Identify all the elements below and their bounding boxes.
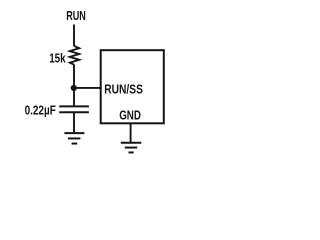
ground (capacitor side) <box>64 133 84 143</box>
ground (IC side) <box>121 143 142 153</box>
svg-text:RUN: RUN <box>66 8 86 23</box>
capacitor C1 bottom plate <box>59 111 89 113</box>
wire capacitor to ground <box>73 112 75 133</box>
resistor R1 15k zigzag <box>70 46 79 65</box>
capacitor C1 top plate <box>59 105 89 107</box>
svg-text:15k: 15k <box>49 51 66 66</box>
wire junction to capacitor <box>73 88 75 106</box>
wire GND pin to ground <box>130 123 132 142</box>
svg-text:GND: GND <box>119 107 141 122</box>
wire from RUN to resistor <box>73 25 75 47</box>
IC U1 box <box>101 50 164 123</box>
svg-text:RUN/SS: RUN/SS <box>104 81 143 96</box>
wire junction to RUN/SS pin <box>74 87 102 89</box>
junction node dot <box>71 85 77 91</box>
wire resistor to junction <box>73 65 75 88</box>
svg-text:0.22µF: 0.22µF <box>25 102 56 117</box>
